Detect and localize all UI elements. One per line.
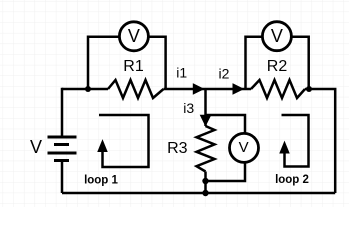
node: junction dot at R3 bottom / U3 bottom	[202, 178, 208, 184]
node: junction dot at R2 right / U2 right leg	[306, 86, 312, 92]
loop 2 arrow (clockwise rectangular loop)	[282, 115, 309, 167]
node: junction dot on bottom wire	[202, 190, 208, 196]
voltmeter U3 circle	[230, 133, 259, 162]
svg-text:V: V	[30, 137, 42, 157]
wire: voltmeter U3 branch (top tap, right run, down to circle)	[206, 115, 246, 148]
battery V (voltage source)	[48, 137, 77, 161]
loop 1 arrow (clockwise rectangular loop)	[99, 115, 149, 167]
wire: middle branch from R3 down to bottom wire	[204, 172, 207, 194]
svg-text:loop 2: loop 2	[275, 174, 309, 186]
wire: top wire from R2 to top-right corner and down right edge	[305, 89, 335, 193]
voltmeter U2 circle	[262, 22, 291, 51]
wire: voltmeter U2 branch (left leg, top run, right leg)	[246, 37, 309, 89]
svg-text:V: V	[128, 26, 140, 46]
svg-text:V: V	[271, 26, 283, 46]
svg-text:R1: R1	[123, 58, 144, 75]
resistor R2 zigzag	[251, 80, 305, 98]
resistor R3 zigzag (vertical)	[197, 126, 215, 172]
current arrow i3 (triangle on middle branch pointing down)	[201, 115, 211, 125]
svg-text:i1: i1	[176, 65, 187, 81]
voltmeter U1 circle	[119, 22, 148, 51]
svg-text:V: V	[239, 139, 249, 156]
svg-text:loop 1: loop 1	[84, 174, 118, 186]
wire: top wire from R1 to middle junction	[164, 88, 206, 91]
svg-text:i2: i2	[219, 66, 230, 82]
resistor R1 zigzag	[108, 80, 164, 98]
node: junction dot at R1 left / U1 left leg	[85, 86, 91, 92]
wire: outer loop top-left segment (top wire y=89 from left corner to R1)	[62, 88, 108, 91]
current arrow i2 (triangle on top wire pointing right)	[233, 84, 243, 94]
wire: left edge top part (down to battery)	[61, 88, 64, 193]
wire: middle branch from junction down to R3	[204, 89, 207, 126]
wire: top wire from middle junction to R2	[206, 88, 252, 91]
wire: bottom wire	[62, 192, 335, 195]
current arrow i1 (triangle on top wire pointing right)	[193, 84, 203, 94]
wire: voltmeter U1 branch (left leg, top run, right leg)	[88, 37, 166, 89]
svg-text:R3: R3	[167, 140, 188, 157]
svg-text:R2: R2	[267, 58, 288, 75]
wire: voltmeter U3 bottom leg back to middle branch	[206, 148, 246, 181]
svg-text:i3: i3	[183, 100, 194, 116]
